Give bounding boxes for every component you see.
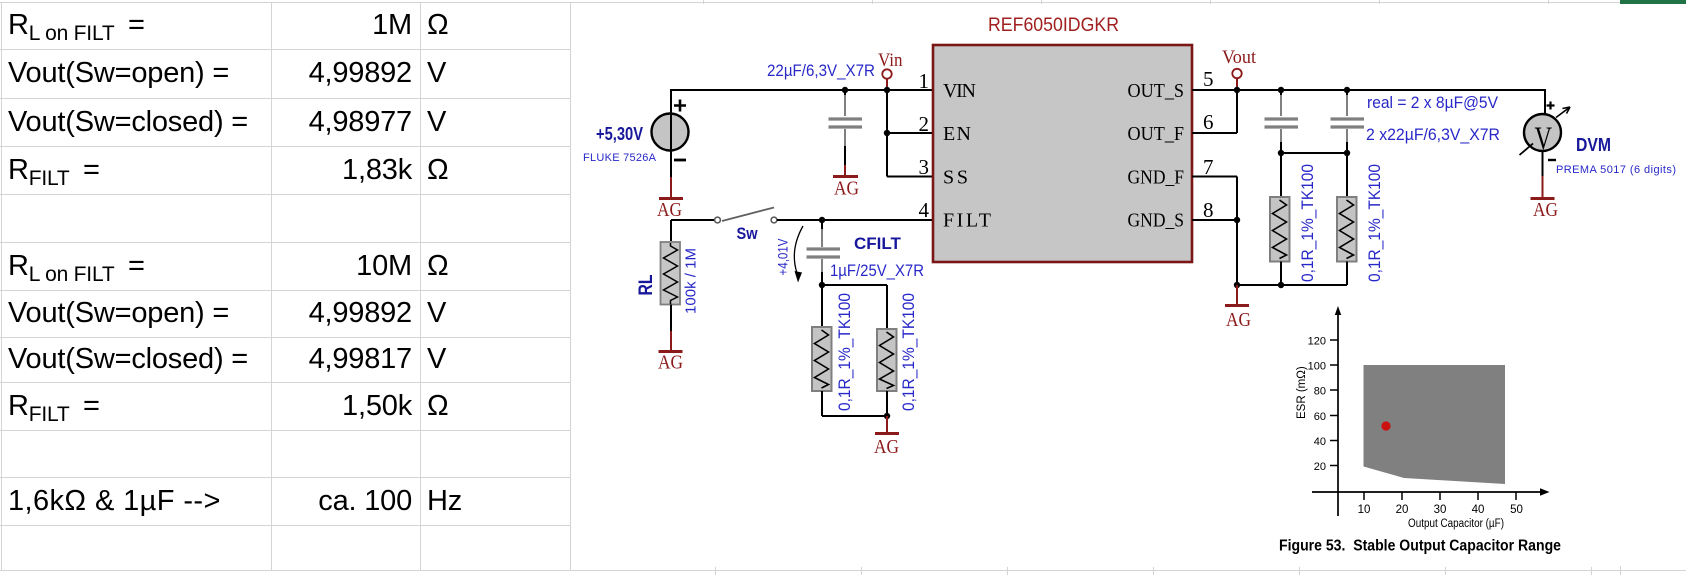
svg-text:0,1R_1%_TK100: 0,1R_1%_TK100 xyxy=(900,293,918,411)
node dot C1 top xyxy=(842,87,848,93)
svg-text:2 x22µF/6,3V_X7R: 2 x22µF/6,3V_X7R xyxy=(1366,126,1500,144)
svg-text:2: 2 xyxy=(919,112,930,136)
label 0,1R_1%_TK100 R2 xyxy=(900,293,918,411)
pin label SS xyxy=(943,167,968,189)
svg-text:50: 50 xyxy=(1510,504,1523,516)
wire: source bottom lead xyxy=(670,150,672,197)
wire: GND_F pin7 riser xyxy=(1192,177,1237,286)
node dot EN junction xyxy=(884,130,890,136)
svg-text:0,1R_1%_TK100: 0,1R_1%_TK100 xyxy=(1299,164,1317,282)
capacitor C2 22uF output xyxy=(1265,90,1299,153)
svg-text:0,1R_1%_TK100: 0,1R_1%_TK100 xyxy=(1366,164,1384,282)
ground AG under DVM xyxy=(1531,199,1559,222)
svg-text:AG: AG xyxy=(658,352,683,374)
svg-text:Vout: Vout xyxy=(1222,47,1257,68)
node dot rail R3 xyxy=(1278,282,1284,288)
svg-text:1: 1 xyxy=(919,69,930,93)
wire: cap bottom tie xyxy=(1281,153,1347,197)
svg-text:AG: AG xyxy=(1533,199,1558,221)
pin 6 number xyxy=(1203,110,1214,134)
resistor R4 0,1R output right xyxy=(1337,197,1357,262)
svg-text:FLUKE 7526A: FLUKE 7526A xyxy=(583,152,657,164)
TABLE TEXT xyxy=(8,2,145,49)
switch Sw xyxy=(715,208,777,223)
svg-text:VIN: VIN xyxy=(943,80,976,102)
graph x axis title Output Capacitor (uF) xyxy=(1408,518,1504,530)
voltage source V1 +5,30V xyxy=(652,100,689,161)
svg-text:3: 3 xyxy=(919,155,930,179)
node dot FILT junction xyxy=(819,217,825,223)
graph y tick labels xyxy=(1308,336,1326,474)
pin label GND_F xyxy=(1128,167,1185,189)
node dot C2 bottom xyxy=(1278,150,1284,156)
svg-text:80: 80 xyxy=(1314,386,1326,398)
label +4,01V xyxy=(776,239,791,276)
pin label OUT_F xyxy=(1128,123,1185,145)
label RL xyxy=(636,274,657,295)
ground AG under source xyxy=(657,199,683,222)
svg-text:CFILT: CFILT xyxy=(854,234,902,253)
wire: CFILT bottom net xyxy=(822,285,887,329)
svg-text:5: 5 xyxy=(1203,67,1214,91)
label Sw xyxy=(737,224,759,243)
graph y axis title ESR (mOhm) xyxy=(1296,366,1308,419)
svg-text:Figure 53. Stable Output Capa: Figure 53. Stable Output Capacitor Range xyxy=(1279,538,1561,555)
label real = 2 x 8uF@5V xyxy=(1367,94,1498,112)
wire: RL bottom lead xyxy=(670,305,672,351)
svg-text:60: 60 xyxy=(1314,411,1326,423)
label 0,1R_1%_TK100 R4 xyxy=(1366,164,1384,282)
resistor R1 0,1R left xyxy=(812,327,832,391)
graph operating point xyxy=(1381,421,1390,430)
svg-text:40: 40 xyxy=(1314,436,1326,448)
svg-text:AG: AG xyxy=(874,436,899,458)
node dot C3 top xyxy=(1344,87,1350,93)
wire: R1 R2 bottom rail xyxy=(822,391,887,416)
label +5,30V xyxy=(596,124,643,144)
wire: FILT net switch to pin4 xyxy=(777,219,933,221)
svg-text:0,1R_1%_TK100: 0,1R_1%_TK100 xyxy=(836,293,854,411)
capacitor C1 22uF input xyxy=(829,90,863,175)
node dot Vout junction xyxy=(1234,87,1240,93)
TABLE GRID xyxy=(0,2,1620,3)
svg-text:6: 6 xyxy=(1203,110,1214,134)
svg-text:OUT_S: OUT_S xyxy=(1128,80,1185,102)
svg-text:20: 20 xyxy=(1314,461,1326,473)
svg-text:+4,01V: +4,01V xyxy=(776,239,791,276)
wire: EN/SS riser xyxy=(887,90,933,177)
pin 7 number xyxy=(1203,155,1214,179)
svg-text:PREMA 5017 (6 digits): PREMA 5017 (6 digits) xyxy=(1556,164,1676,176)
label 0,1R_1%_TK100 R1 xyxy=(836,293,854,411)
svg-text:40: 40 xyxy=(1472,504,1485,516)
pin label FILT xyxy=(943,210,991,232)
svg-text:DVM: DVM xyxy=(1576,135,1611,155)
svg-text:120: 120 xyxy=(1308,336,1326,348)
svg-text:Output Capacitor (µF): Output Capacitor (µF) xyxy=(1408,518,1504,530)
pin 5 number xyxy=(1203,67,1214,91)
capacitor CFILT xyxy=(807,220,841,285)
graph caption Figure 53 xyxy=(1279,538,1561,555)
ground AG under C1 xyxy=(833,177,859,200)
svg-text:ESR (mΩ): ESR (mΩ) xyxy=(1296,366,1308,419)
svg-text:AG: AG xyxy=(1226,309,1251,331)
capacitor C3 22uF output xyxy=(1331,90,1365,153)
svg-text:RL: RL xyxy=(636,274,657,295)
wire: output main net pin5 to DVM xyxy=(1192,89,1545,91)
wire: DVM bottom lead xyxy=(1542,151,1544,197)
svg-text:GND_F: GND_F xyxy=(1128,167,1185,189)
wire: AG stub output rail xyxy=(1236,285,1238,304)
svg-text:20: 20 xyxy=(1396,504,1409,516)
svg-text:7: 7 xyxy=(1203,155,1214,179)
pin 3 number xyxy=(919,155,930,179)
svg-text:EN: EN xyxy=(943,123,971,145)
wire: output ground rail xyxy=(1237,262,1347,286)
label 22uF/6,3V_X7R xyxy=(767,62,875,80)
label 1uF/25V_X7R xyxy=(830,262,924,280)
wire: AG stub FILT rail xyxy=(886,416,888,432)
node dot C3 bottom xyxy=(1344,150,1350,156)
wire: source top lead xyxy=(670,89,672,114)
pin label OUT_S xyxy=(1128,80,1185,102)
resistor RL xyxy=(661,242,681,305)
ground AG under RL xyxy=(658,352,683,374)
svg-text:FILT: FILT xyxy=(943,210,991,232)
svg-text:30: 30 xyxy=(1434,504,1447,516)
svg-text:8: 8 xyxy=(1203,198,1214,222)
node dot Vin junction xyxy=(884,87,890,93)
wire: main top net from source to VIN pin1 xyxy=(671,89,933,91)
pin 4 number xyxy=(919,198,930,222)
wire: OUT_F riser pin6 xyxy=(1192,90,1237,133)
pin label VIN xyxy=(943,80,976,102)
ground AG under FILT rail xyxy=(874,434,899,459)
graph y ticks xyxy=(1330,340,1338,466)
node dot rail left xyxy=(1234,282,1240,288)
svg-text:4: 4 xyxy=(919,198,930,222)
label PREMA 5017 (6 digits) xyxy=(1556,164,1676,176)
node Vin terminal xyxy=(878,50,903,88)
wire: DVM drop xyxy=(1544,89,1546,114)
svg-text:1µF/25V_X7R: 1µF/25V_X7R xyxy=(830,262,924,280)
graph stable region polygon xyxy=(1364,365,1506,484)
svg-text:AG: AG xyxy=(657,199,682,221)
wire: switch left net xyxy=(671,220,715,241)
node dot C2 top xyxy=(1278,87,1284,93)
label FLUKE 7526A xyxy=(583,152,657,164)
svg-text:22µF/6,3V_X7R: 22µF/6,3V_X7R xyxy=(767,62,875,80)
graph x-axis xyxy=(1312,488,1550,496)
svg-text:100k / 1M: 100k / 1M xyxy=(683,248,700,314)
label CFILT xyxy=(854,234,902,253)
graph y-axis xyxy=(1335,306,1341,516)
label REF6050IDGKR xyxy=(988,15,1119,36)
resistor R2 0,1R right xyxy=(877,329,897,391)
graph x tick labels xyxy=(1358,504,1523,516)
measurement arrow across Sw xyxy=(794,226,803,283)
pin 2 number xyxy=(919,112,930,136)
svg-text:10: 10 xyxy=(1358,504,1371,516)
node dot CFILT bottom xyxy=(819,282,825,288)
svg-text:GND_S: GND_S xyxy=(1128,210,1185,232)
label 2 x22uF/6,3V_X7R xyxy=(1366,126,1500,144)
svg-text:AG: AG xyxy=(834,178,859,200)
node Vout terminal xyxy=(1222,47,1257,88)
pin 1 number xyxy=(919,69,930,93)
pin label EN xyxy=(943,123,971,145)
resistor R3 0,1R output left xyxy=(1270,197,1290,262)
wire: GND_S pin8 stub xyxy=(1192,219,1237,221)
svg-text:Vin: Vin xyxy=(878,50,903,71)
node dot rail R2 xyxy=(884,413,890,419)
label 100k / 1M xyxy=(683,248,700,314)
svg-text:+5,30V: +5,30V xyxy=(596,124,643,144)
svg-text:real = 2 x 8µF@5V: real = 2 x 8µF@5V xyxy=(1367,94,1498,112)
voltmeter DVM xyxy=(1520,102,1571,161)
op-amp U1 REF6050IDGKR body xyxy=(933,45,1192,262)
ground AG under output rail xyxy=(1225,306,1251,332)
svg-text:Sw: Sw xyxy=(737,224,759,243)
svg-text:OUT_F: OUT_F xyxy=(1128,123,1185,145)
graph x ticks xyxy=(1364,492,1516,500)
svg-text:REF6050IDGKR: REF6050IDGKR xyxy=(988,15,1119,36)
label DVM xyxy=(1576,135,1611,155)
svg-text:100: 100 xyxy=(1308,361,1326,373)
label 0,1R_1%_TK100 R3 xyxy=(1299,164,1317,282)
pin label GND_S xyxy=(1128,210,1185,232)
pin 8 number xyxy=(1203,198,1214,222)
node dot pin8 junction xyxy=(1234,217,1240,223)
